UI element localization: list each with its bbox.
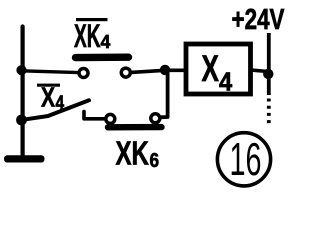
contact XK4 left terminal (79, 69, 88, 78)
svg-text:+24V: +24V (232, 4, 285, 36)
wire supply continuation (dashed) (267, 99, 271, 125)
svg-text:XK: XK (116, 135, 150, 172)
contact XK6 right terminal (151, 114, 160, 123)
node junction C (160, 65, 170, 75)
svg-text:4: 4 (101, 31, 111, 52)
contact XK6 left terminal (106, 114, 115, 123)
node junction D (supply) (263, 69, 273, 79)
contact XK4 bridge bar (76, 54, 129, 62)
node junction B (lower left) (16, 115, 27, 126)
wire top branch to contact (21, 71, 79, 73)
svg-text:XK: XK (74, 18, 101, 54)
relay coil X4 box (186, 44, 251, 94)
ground (4, 155, 45, 162)
svg-text:6: 6 (150, 150, 160, 172)
svg-text:X: X (202, 48, 220, 89)
contact XK6 bridge bar (108, 124, 162, 131)
wire contact XK4 to node C (131, 70, 186, 72)
svg-text:16: 16 (230, 133, 262, 185)
contact XK4 right terminal (121, 68, 130, 77)
figure number 16 circle (217, 133, 270, 186)
svg-text:4: 4 (56, 93, 65, 114)
svg-text:4: 4 (219, 67, 233, 97)
wire box to supply node (251, 70, 268, 72)
switch X4 blade (23, 100, 90, 120)
svg-text:X: X (41, 82, 55, 113)
node junction A (top left) (16, 65, 26, 75)
wire contact XK6 up to node C (160, 72, 168, 117)
wire left vertical bus (21, 27, 25, 158)
label XK4 overbar (76, 18, 108, 21)
wire +24V supply vertical (267, 33, 271, 95)
switch X4 fixed terminal hook (84, 112, 105, 119)
label X4 overbar (37, 84, 60, 87)
